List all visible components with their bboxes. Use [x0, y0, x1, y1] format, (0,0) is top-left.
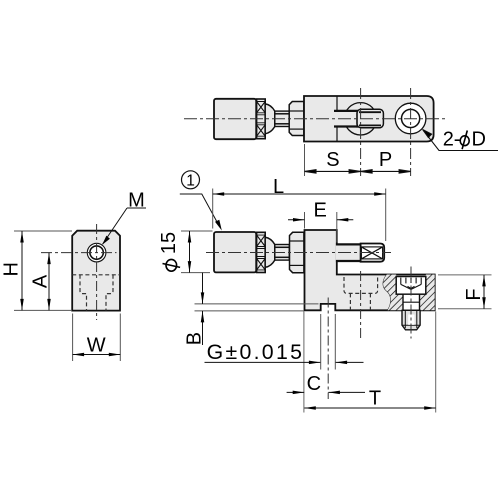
- knob K1 top view: [214, 99, 256, 139]
- dim phi15 extension lines: [181, 230, 213, 232]
- hex nut front view: [290, 232, 304, 272]
- leader M: [103, 208, 146, 244]
- centerline boss vertical: [360, 88, 362, 176]
- body inner line: [336, 96, 338, 142]
- dim T line: [304, 407, 435, 409]
- screw shank: [403, 294, 420, 310]
- hidden counterbore dashes: [344, 277, 378, 310]
- knurl ring front view: [257, 232, 266, 272]
- dim L extension lines: [212, 189, 214, 229]
- dim W line: [73, 354, 121, 356]
- svg-text:C: C: [307, 373, 321, 395]
- long extension line block left: [303, 312, 305, 413]
- dim L line: [213, 193, 386, 195]
- svg-text:A: A: [30, 274, 52, 288]
- svg-text:B: B: [184, 332, 206, 345]
- wire centerline horizontal front view: [206, 252, 391, 254]
- screw socket: [401, 278, 421, 290]
- svg-text:1: 1: [186, 172, 195, 189]
- block left view: [72, 231, 120, 311]
- dim B line: [202, 273, 204, 304]
- dim W extension lines: [72, 314, 74, 362]
- centerline counterbore vertical: [360, 271, 362, 338]
- pin X-box front view: [361, 244, 385, 262]
- dim G extension lines (slot edges): [320, 314, 322, 370]
- svg-text:P: P: [379, 149, 392, 171]
- hidden channel dashes left view: [72, 275, 120, 311]
- body top view: [304, 96, 434, 142]
- rod tip top view: [357, 109, 383, 128]
- dim H extension lines: [14, 230, 72, 232]
- screw thread end: [402, 310, 420, 330]
- svg-text:S: S: [326, 149, 339, 171]
- bell taper top view: [265, 104, 275, 134]
- svg-text:15: 15: [158, 232, 180, 254]
- dim T extension line right: [435, 312, 437, 413]
- leader balloon 1: [180, 194, 220, 227]
- knob K1 front view: [214, 232, 256, 272]
- centerline slot vertical: [327, 298, 329, 400]
- hex nut top view: [289, 102, 304, 136]
- shaft top view: [275, 111, 290, 126]
- svg-text:H: H: [1, 262, 23, 276]
- hatch left of screw: [383, 275, 403, 311]
- svg-text:D: D: [472, 129, 486, 151]
- svg-text:G±0.015: G±0.015: [207, 340, 305, 364]
- knurl ring top view: [257, 99, 266, 139]
- hatch right of screw: [420, 275, 435, 311]
- hole circle top view: [395, 103, 426, 134]
- dim line S: [305, 170, 411, 174]
- svg-text:F: F: [463, 288, 485, 300]
- centerline vertical left view: [96, 224, 98, 320]
- dim F extension lines: [438, 274, 492, 276]
- dim E extension lines: [304, 212, 306, 229]
- wire centerline horizontal top view: [184, 118, 445, 120]
- tapped hole M left view: [87, 243, 106, 262]
- shaft front view: [275, 245, 290, 261]
- centerline horizontal left view: [41, 252, 117, 254]
- svg-text:W: W: [87, 335, 106, 357]
- break line: [383, 275, 391, 311]
- svg-text:E: E: [314, 200, 327, 222]
- block and base outline front view: [305, 230, 435, 310]
- dim A line: [48, 253, 50, 311]
- dim B extension lines: [195, 303, 319, 305]
- bell taper front view: [265, 237, 275, 267]
- rod band top view: [334, 111, 360, 127]
- dim S P extension line: [304, 144, 306, 176]
- svg-text:M: M: [128, 190, 145, 212]
- centerline screw vertical: [410, 267, 412, 339]
- dim C line: [287, 391, 305, 393]
- pin rod front view: [336, 244, 362, 261]
- centerline hole vertical: [410, 88, 412, 176]
- boss circle top view: [344, 103, 376, 135]
- screw head: [396, 277, 426, 295]
- svg-text:2-: 2-: [443, 129, 461, 151]
- svg-text:L: L: [273, 176, 284, 198]
- dim E line: [288, 219, 305, 221]
- leader 2-phiD: [423, 130, 498, 151]
- dim F line: [483, 275, 485, 309]
- dim G line: [205, 361, 321, 363]
- dim phi15 line: [189, 231, 191, 273]
- dim H line: [21, 231, 23, 310]
- balloon 1: [182, 171, 200, 189]
- svg-text:T: T: [369, 388, 381, 410]
